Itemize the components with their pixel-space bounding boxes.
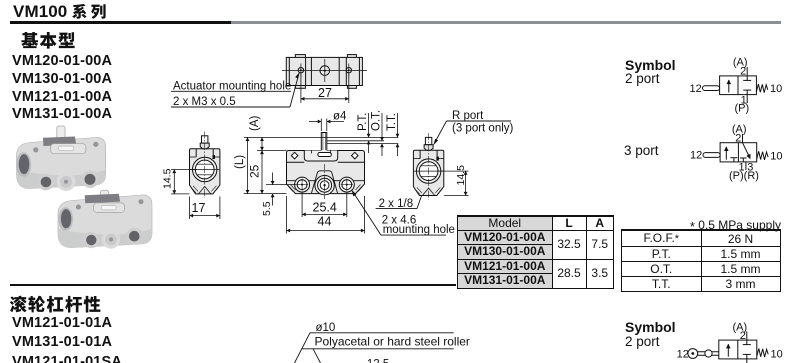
svg-text:12.5: 12.5 [367,359,389,363]
svg-text:R port: R port [452,110,484,122]
svg-text:14.5: 14.5 [455,165,467,186]
svg-text:(P): (P) [735,103,750,115]
svg-text:10: 10 [770,150,782,162]
svg-text:P.T.: P.T. [357,113,369,131]
svg-text:ø4: ø4 [333,111,347,123]
svg-text:44: 44 [318,215,332,229]
svg-text:mounting hole: mounting hole [383,224,455,236]
svg-text:25: 25 [248,164,262,178]
svg-text:5.5: 5.5 [261,201,273,216]
svg-text:Actuator mounting hole: Actuator mounting hole [173,81,291,93]
svg-text:(A): (A) [249,116,261,132]
svg-text:10: 10 [771,349,783,361]
svg-text:(P)(R): (P)(R) [729,170,759,182]
svg-text:12: 12 [690,83,702,95]
svg-text:T.T.: T.T. [386,113,398,131]
svg-text:14.5: 14.5 [161,168,173,189]
svg-text:Polyacetal or hard steel rolle: Polyacetal or hard steel roller [315,335,470,349]
svg-text:(3 port only): (3 port only) [452,123,514,135]
svg-text:12: 12 [677,349,689,361]
svg-text:12: 12 [690,150,702,162]
svg-text:(L): (L) [234,155,246,169]
svg-text:10: 10 [770,83,782,95]
svg-text:O.T.: O.T. [371,110,383,131]
svg-text:2 x M3 x 0.5: 2 x M3 x 0.5 [173,96,236,108]
svg-text:17: 17 [192,201,206,215]
svg-text:25.4: 25.4 [313,201,337,215]
svg-text:27: 27 [318,86,332,100]
svg-text:ø10: ø10 [316,322,336,334]
